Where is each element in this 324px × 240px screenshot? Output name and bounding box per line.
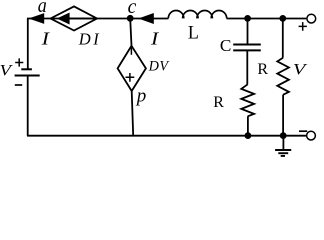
junction bottom ground dot: [280, 132, 287, 139]
dependent source DV plus mark: [126, 73, 135, 82]
ground symbol bar 1: [275, 149, 291, 151]
dependent voltage source DV diamond: [118, 46, 146, 91]
dependent source DI arrowhead: [57, 13, 70, 25]
dependent source DI internal arrow wire: [69, 18, 96, 20]
dependent source DV minus mark: [130, 48, 132, 55]
wire top rail right of inductor: [227, 18, 307, 20]
wire left rail lower (from source V1): [27, 76, 29, 136]
minus label bottom terminal: [299, 130, 307, 132]
svg-text:V: V: [0, 60, 13, 79]
terminal top right: [307, 14, 316, 23]
wire left rail upper (to source V1): [27, 19, 29, 70]
wire top rail left of inductor: [27, 18, 168, 20]
svg-text:a: a: [38, 0, 47, 17]
junction bottom capacitor dot: [245, 132, 252, 139]
terminal bottom right: [307, 131, 316, 140]
resistor R2 zigzag: [277, 58, 289, 95]
wire DV to bottom rail (node p): [132, 91, 134, 136]
plus label source V1: [15, 58, 23, 66]
plus label top terminal: [299, 22, 307, 31]
svg-text:L: L: [188, 24, 199, 44]
wire ground stub: [282, 136, 284, 150]
inductor L coil: [168, 11, 226, 19]
capacitor C1 top plate: [233, 44, 261, 46]
svg-text:C: C: [220, 36, 231, 55]
wire capacitor to resistor R1: [246, 50, 248, 84]
junction top capacitor dot: [244, 15, 251, 22]
capacitor C1 bottom plate: [233, 49, 261, 51]
resistor R1 zigzag: [241, 84, 254, 116]
wire resistor R2 to bottom rail: [282, 95, 284, 136]
wire resistor R1 to bottom rail: [247, 116, 249, 135]
voltage source V1 battery long plate: [15, 75, 40, 77]
svg-text:R: R: [213, 94, 224, 111]
ground symbol bar 3: [281, 155, 285, 157]
minus label source V1: [15, 84, 22, 86]
svg-text:p: p: [135, 85, 147, 106]
wire capacitor branch upper: [247, 18, 249, 44]
voltage source V1 battery short plate: [21, 68, 32, 70]
svg-text:DV: DV: [148, 58, 171, 74]
current arrow I at node c: [138, 13, 154, 24]
svg-text:V: V: [293, 60, 308, 79]
svg-text:DI: DI: [78, 29, 102, 48]
svg-text:I: I: [41, 28, 51, 48]
wire load branch upper: [282, 18, 284, 57]
wire node c vertical stub: [130, 18, 131, 46]
junction top load dot: [279, 15, 286, 22]
current arrow I at node a: [29, 13, 45, 24]
wire bottom rail: [27, 135, 306, 137]
svg-text:I: I: [150, 28, 160, 48]
ground symbol bar 2: [278, 152, 288, 154]
dependent current source DI diamond: [51, 6, 98, 30]
svg-text:c: c: [128, 0, 137, 18]
junction node c dot: [127, 15, 134, 22]
svg-text:R: R: [257, 61, 268, 78]
